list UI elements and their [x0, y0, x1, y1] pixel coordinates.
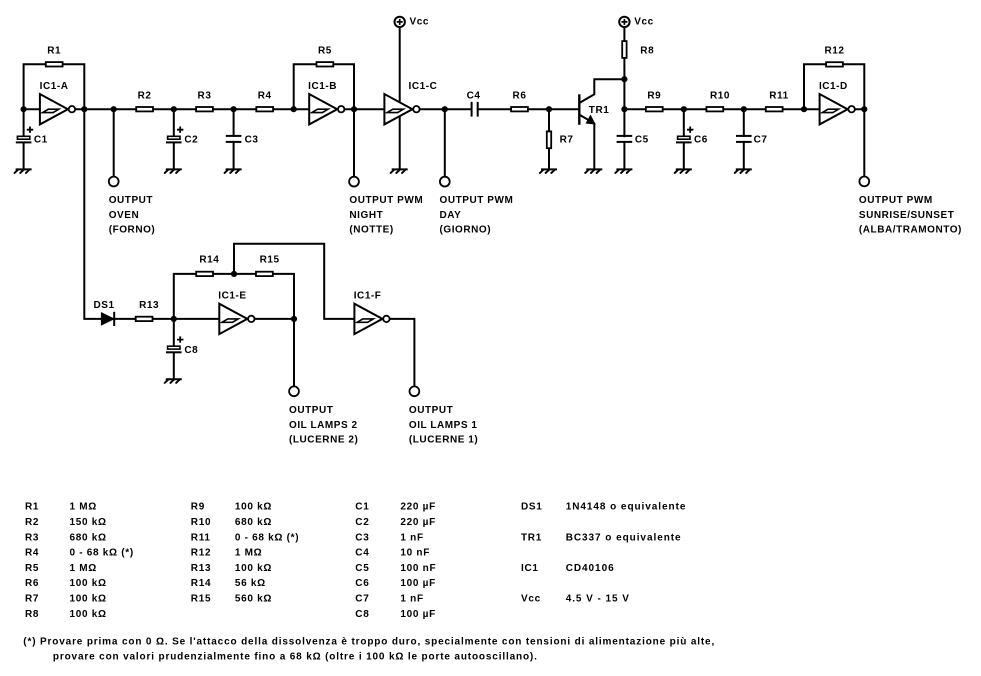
svg-text:0 - 68 kΩ (*): 0 - 68 kΩ (*) [235, 532, 299, 543]
capacitor C8 (polarized) [167, 336, 198, 356]
svg-text:R3: R3 [198, 90, 212, 101]
wire: R14/R15 feedback row around IC1-E [174, 274, 294, 319]
wire: base node through R7 to ground [548, 109, 550, 169]
wire: node to C6 top [683, 109, 685, 136]
output terminal OUTPUT PWM SUNRISE/SUNSET [859, 177, 869, 187]
inverter gate IC1-E (Schmitt trigger) [218, 290, 254, 334]
junction: R8 / TR1 collector [621, 76, 627, 82]
junction: IC1-E output / R15 / OIL LAMPS 2 tap [291, 316, 297, 322]
svg-text:(ALBA/TRAMONTO): (ALBA/TRAMONTO) [859, 225, 962, 236]
svg-text:R13: R13 [139, 300, 159, 311]
inverter gate IC1-C (Schmitt trigger) [384, 81, 437, 125]
svg-text:R15: R15 [260, 254, 280, 265]
junction: R6/R7/TR1 base [546, 106, 552, 112]
svg-text:(LUCERNE 2): (LUCERNE 2) [289, 435, 358, 446]
junction: collector line / C5 / R9 [621, 106, 627, 112]
junction: R2/R3/C2 [171, 106, 177, 112]
capacitor C4 (series, horizontal) [467, 90, 481, 115]
svg-text:(NOTTE): (NOTTE) [349, 225, 393, 236]
resistor R9 [646, 90, 663, 111]
svg-text:R1: R1 [25, 502, 39, 513]
ground (R7) [540, 169, 556, 173]
wire: R14/R15 junction to IC1-F input [234, 244, 355, 319]
svg-text:BC337 o equivalente: BC337 o equivalente [566, 532, 682, 543]
resistor R11 [766, 90, 789, 111]
svg-text:680 kΩ: 680 kΩ [70, 532, 107, 543]
wire: IC1-F output to OIL LAMPS 1 terminal [386, 319, 414, 386]
wire: C4 to TR1 base [478, 108, 580, 110]
resistor R7 [547, 131, 574, 148]
wire: tap to OUTPUT PWM SUNRISE/SUNSET terminal [863, 109, 865, 176]
svg-text:R10: R10 [191, 517, 211, 528]
svg-text:IC1-C: IC1-C [409, 81, 438, 92]
wire: R12 feedback loop around IC1-D [804, 64, 864, 109]
svg-text:NIGHT: NIGHT [349, 210, 383, 221]
inverter gate IC1-B (Schmitt trigger) [308, 81, 344, 125]
diode DS1 [94, 300, 115, 325]
junction: IC1-C output / C4 / DAY tap [442, 106, 448, 112]
svg-text:R5: R5 [25, 563, 39, 574]
svg-text:R8: R8 [640, 45, 654, 56]
svg-text:R13: R13 [191, 563, 211, 574]
resistor R8 [622, 41, 654, 58]
svg-text:4.5 V - 15 V: 4.5 V - 15 V [566, 594, 630, 605]
svg-text:R15: R15 [191, 594, 211, 605]
svg-text:R7: R7 [560, 135, 574, 146]
svg-text:CD40106: CD40106 [566, 563, 615, 574]
svg-text:220 µF: 220 µF [400, 517, 436, 528]
junction: R10/R11/C7 [741, 106, 747, 112]
svg-text:100 nF: 100 nF [400, 563, 436, 574]
svg-text:OIL LAMPS 1: OIL LAMPS 1 [409, 420, 478, 431]
svg-text:C3: C3 [355, 532, 369, 543]
junction: IC1-A input / C1 / R1 [21, 106, 27, 112]
output terminal OUTPUT PWM DAY [440, 177, 450, 187]
wire: node to C7 top [743, 109, 745, 136]
svg-text:1 MΩ: 1 MΩ [70, 563, 98, 574]
capacitor C5 [618, 135, 649, 146]
capacitor C6 (polarized) [677, 127, 708, 146]
wire: R5 feedback loop around IC1-B [294, 64, 354, 109]
svg-text:1 nF: 1 nF [400, 532, 423, 543]
svg-text:10 nF: 10 nF [400, 548, 430, 559]
wire: C7 bottom to ground [743, 142, 745, 170]
ground (C3) [225, 169, 241, 173]
resistor R14 [196, 254, 219, 276]
svg-text:IC1-A: IC1-A [40, 81, 69, 92]
svg-text:R10: R10 [710, 90, 730, 101]
svg-text:TR1: TR1 [589, 105, 610, 116]
svg-text:100 µF: 100 µF [400, 578, 436, 589]
resistor R13 [136, 300, 159, 321]
resistor R2 [136, 90, 153, 111]
svg-text:IC1-B: IC1-B [308, 81, 337, 92]
wire: C1 bottom to ground [23, 143, 25, 170]
resistor R1 [46, 46, 63, 67]
resistor R3 [196, 90, 213, 111]
wire: node to C1 top [23, 109, 25, 136]
wire: Vcc through R8, collector node, to C5 [623, 27, 625, 136]
capacitor C2 (polarized) [167, 127, 198, 146]
svg-text:R4: R4 [258, 90, 272, 101]
footnote about R4/R11 value [23, 636, 715, 662]
svg-text:1 nF: 1 nF [400, 594, 423, 605]
Vcc power symbol [619, 16, 654, 27]
ground (C2) [165, 169, 181, 173]
ground (C1) [15, 169, 31, 173]
output terminal OUTPUT OIL LAMPS 2 [289, 386, 299, 396]
junction: R3/R4/C3 [231, 106, 237, 112]
svg-text:OUTPUT: OUTPUT [289, 405, 333, 416]
output label OUTPUT OIL LAMPS 1 (LUCERNE 1) [409, 405, 478, 445]
svg-text:OUTPUT: OUTPUT [409, 405, 453, 416]
svg-text:OUTPUT PWM: OUTPUT PWM [859, 195, 933, 206]
svg-text:1 MΩ: 1 MΩ [70, 502, 98, 513]
svg-text:56 kΩ: 56 kΩ [235, 578, 266, 589]
output terminal OUTPUT PWM NIGHT [349, 177, 359, 187]
svg-text:C8: C8 [184, 345, 198, 356]
resistor R4 [256, 90, 273, 111]
wire: Vcc rail through IC1-C to ground [399, 27, 401, 169]
wire: tap to OUTPUT PWM NIGHT terminal [353, 109, 355, 176]
resistor R10 [706, 90, 730, 111]
output label OUTPUT PWM DAY (GIORNO) [440, 195, 514, 235]
svg-text:DS1: DS1 [521, 502, 543, 513]
svg-text:OUTPUT PWM: OUTPUT PWM [440, 195, 514, 206]
output label OUTPUT PWM NIGHT (NOTTE) [349, 195, 423, 235]
ground (C5) [615, 169, 631, 173]
junction: R4/IC1-B input/R5 [291, 106, 297, 112]
svg-text:1N4148 o equivalente: 1N4148 o equivalente [566, 502, 687, 513]
svg-text:100 kΩ: 100 kΩ [235, 502, 272, 513]
svg-text:R3: R3 [25, 532, 39, 543]
svg-text:C6: C6 [694, 135, 708, 146]
wire: tap to OUTPUT PWM DAY terminal [444, 109, 446, 176]
svg-text:R6: R6 [25, 578, 39, 589]
svg-text:0 - 68 kΩ (*): 0 - 68 kΩ (*) [70, 548, 134, 559]
svg-text:OVEN: OVEN [109, 210, 140, 221]
junction: IC1-B output / R5 / NIGHT tap [351, 106, 357, 112]
wire: node to C2 top [173, 109, 175, 136]
junction: R9/R10/C6 [681, 106, 687, 112]
junction: OUTPUT OVEN tap [111, 106, 117, 112]
svg-text:R9: R9 [191, 502, 205, 513]
capacitor C7 [737, 135, 767, 146]
parts list: semiconductors / supply column [521, 502, 686, 605]
junction: IC1-D output / R12 / SUNRISE tap [861, 106, 867, 112]
wire: IC1-E output to node [251, 318, 294, 320]
resistor R6 [511, 90, 528, 111]
svg-text:Vcc: Vcc [410, 16, 429, 27]
wire: R1 feedback loop around IC1-A [24, 64, 85, 109]
wire: C3 bottom to ground [233, 142, 235, 170]
svg-text:IC1: IC1 [521, 563, 539, 574]
svg-text:C4: C4 [467, 90, 481, 101]
svg-text:R6: R6 [513, 90, 527, 101]
wire: IC1-A output down to DS1/R13 row [84, 109, 221, 319]
svg-text:R7: R7 [25, 594, 39, 605]
svg-text:TR1: TR1 [521, 532, 542, 543]
svg-text:R5: R5 [318, 46, 332, 57]
svg-text:IC1-F: IC1-F [354, 290, 382, 301]
svg-text:SUNRISE/SUNSET: SUNRISE/SUNSET [859, 210, 955, 221]
ground (TR1 emitter) [585, 169, 601, 173]
output label OUTPUT OIL LAMPS 2 (LUCERNE 2) [289, 405, 358, 445]
svg-text:R4: R4 [25, 548, 39, 559]
svg-text:C5: C5 [635, 135, 649, 146]
svg-text:680 kΩ: 680 kΩ [235, 517, 272, 528]
svg-text:R12: R12 [825, 46, 845, 57]
svg-text:C7: C7 [355, 594, 369, 605]
svg-text:R14: R14 [199, 254, 219, 265]
svg-text:(*) Provare prima con 0 Ω. Se: (*) Provare prima con 0 Ω. Se l'attacco … [23, 636, 715, 647]
svg-text:DS1: DS1 [94, 300, 115, 311]
resistor R12 [825, 46, 845, 67]
svg-text:220 µF: 220 µF [400, 502, 436, 513]
svg-text:R12: R12 [191, 548, 211, 559]
output label OUTPUT OVEN (FORNO) [109, 195, 156, 235]
wire: C6 bottom to ground [683, 143, 685, 170]
wire: middle node to C8 top [173, 319, 175, 346]
parts list: capacitors column (C1-C8 values) [355, 502, 436, 620]
inverter gate IC1-F (Schmitt trigger) [354, 290, 390, 334]
svg-text:Vcc: Vcc [634, 16, 653, 27]
svg-text:100 kΩ: 100 kΩ [70, 594, 107, 605]
wire: node to C3 top [233, 109, 235, 136]
wire: main signal line (IC1-A input to C4) [24, 108, 471, 110]
svg-text:R2: R2 [25, 517, 39, 528]
output terminal OUTPUT OIL LAMPS 1 [410, 386, 420, 396]
svg-text:provare con valori prudenzialm: provare con valori prudenzialmente fino … [53, 651, 538, 662]
capacitor C3 [227, 135, 259, 146]
capacitor C1 (polarized) [17, 127, 48, 146]
ground (C6) [675, 169, 691, 173]
svg-text:(LUCERNE 1): (LUCERNE 1) [409, 435, 478, 446]
junction: IC1-A output / R1 / drop wire [81, 106, 87, 112]
junction: R11 / IC1-D input / R12 [801, 106, 807, 112]
ground (C7) [735, 169, 751, 173]
svg-text:R14: R14 [191, 578, 211, 589]
svg-text:OUTPUT PWM: OUTPUT PWM [349, 195, 423, 206]
wire: node down to OIL LAMPS 2 terminal [293, 319, 295, 386]
svg-text:IC1-D: IC1-D [819, 81, 848, 92]
svg-text:C6: C6 [355, 578, 369, 589]
svg-text:R11: R11 [769, 90, 788, 101]
svg-text:1 MΩ: 1 MΩ [235, 548, 263, 559]
svg-text:C2: C2 [184, 135, 198, 146]
parts list: resistors column 2 (R9-R15 values) [191, 502, 299, 605]
wire: C2 bottom to ground [173, 143, 175, 170]
svg-text:R2: R2 [138, 90, 152, 101]
ground (IC1-C supply) [391, 169, 407, 173]
Vcc power symbol [395, 16, 429, 27]
svg-text:C3: C3 [245, 135, 259, 146]
output terminal OUTPUT OVEN [109, 177, 119, 187]
svg-text:R9: R9 [647, 90, 661, 101]
svg-text:100 kΩ: 100 kΩ [235, 563, 272, 574]
svg-text:DAY: DAY [440, 210, 462, 221]
svg-text:C2: C2 [355, 517, 369, 528]
svg-text:C5: C5 [355, 563, 369, 574]
output label OUTPUT PWM SUNRISE/SUNSET [859, 195, 962, 235]
svg-text:R11: R11 [191, 532, 211, 543]
svg-text:OUTPUT: OUTPUT [109, 195, 153, 206]
svg-text:Vcc: Vcc [521, 594, 541, 605]
svg-text:100 µF: 100 µF [400, 609, 436, 620]
svg-text:150 kΩ: 150 kΩ [70, 517, 107, 528]
svg-text:C8: C8 [355, 609, 369, 620]
transistor TR1 (NPN BC337) [579, 79, 624, 169]
junction: R14/R15/feedback to IC1-F [231, 271, 237, 277]
svg-text:(GIORNO): (GIORNO) [440, 225, 492, 236]
wire: C8 bottom to ground [173, 353, 175, 380]
svg-text:IC1-E: IC1-E [218, 290, 246, 301]
svg-text:100 kΩ: 100 kΩ [70, 578, 107, 589]
resistor R15 [256, 254, 280, 276]
inverter gate IC1-D (Schmitt trigger) [819, 81, 855, 125]
svg-text:R1: R1 [47, 46, 61, 57]
inverter gate IC1-A (Schmitt trigger) [40, 81, 75, 125]
svg-text:C4: C4 [355, 548, 369, 559]
svg-text:C1: C1 [34, 135, 48, 146]
resistor R5 [317, 46, 334, 67]
svg-text:OIL LAMPS 2: OIL LAMPS 2 [289, 420, 358, 431]
wire: TR1 collector node to IC1-D output [624, 108, 864, 110]
wire: C5 bottom to ground [623, 142, 625, 169]
ground (C8) [165, 379, 181, 383]
svg-text:C7: C7 [754, 135, 768, 146]
svg-text:(FORNO): (FORNO) [109, 225, 156, 236]
junction: R13 / C8 / R14 / IC1-E input [171, 316, 177, 322]
parts list: resistors column 1 (R1-R8 values) [25, 502, 134, 620]
svg-text:C1: C1 [355, 502, 369, 513]
wire: tap to OUTPUT OVEN terminal [113, 109, 115, 176]
svg-text:R8: R8 [25, 609, 39, 620]
svg-text:560 kΩ: 560 kΩ [235, 594, 272, 605]
svg-text:100 kΩ: 100 kΩ [70, 609, 107, 620]
